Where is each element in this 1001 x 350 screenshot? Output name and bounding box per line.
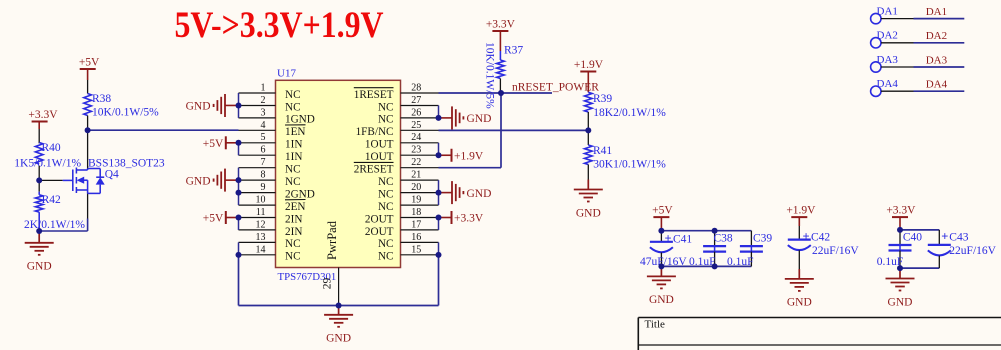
- op-amp U17 regulator body TPS767D301: [276, 80, 401, 267]
- svg-text:NC: NC: [285, 101, 301, 113]
- svg-text:6: 6: [261, 145, 266, 156]
- svg-text:C38: C38: [714, 232, 733, 244]
- connector pin DA1: [871, 5, 914, 23]
- power +3.3V (cap group): [886, 205, 916, 218]
- junction dot: junction pin 8: [236, 177, 242, 183]
- svg-text:2: 2: [261, 95, 266, 106]
- power +1.9V (C42): [786, 205, 816, 218]
- wire pin15 down: [438, 255, 440, 306]
- svg-text:NC: NC: [285, 176, 301, 188]
- svg-text:30K1/0.1W/1%: 30K1/0.1W/1%: [593, 159, 666, 171]
- wire R37 top lead: [499, 51, 501, 60]
- wire +5V lead: [660, 217, 662, 231]
- junction dot: junction C41 top: [658, 228, 664, 234]
- pin 4 (1EN): [239, 120, 306, 138]
- junction dot: junction pin 9: [236, 190, 242, 196]
- svg-text:DA2: DA2: [877, 30, 898, 42]
- junction dot: junction pad GND: [336, 303, 342, 309]
- junction dot: junction C38 bottom: [712, 263, 718, 269]
- junction dot: junction C40 top: [897, 227, 903, 233]
- junction dot: junction pin 23: [436, 152, 442, 158]
- wire Q4 source lead: [87, 193, 89, 218]
- pin 11 (2IN): [239, 207, 303, 225]
- junction dot: junction pin 20: [436, 190, 442, 196]
- pin 18 (2OUT): [365, 207, 439, 225]
- svg-text:1RESET: 1RESET: [354, 89, 394, 101]
- svg-text:NC: NC: [285, 164, 301, 176]
- wire nRESET_POWER: [439, 92, 553, 94]
- svg-text:1FB/NC: 1FB/NC: [356, 126, 394, 138]
- power +3.3V (top of R40): [28, 109, 58, 122]
- svg-text:2IN: 2IN: [285, 213, 302, 225]
- wire R38 bottom lead: [87, 116, 89, 131]
- svg-text:DA3: DA3: [877, 54, 899, 66]
- svg-text:10K/0.1W/5%: 10K/0.1W/5%: [484, 42, 496, 109]
- ground symbol left of pin 2: [214, 94, 225, 117]
- svg-text:20: 20: [411, 182, 421, 193]
- wire R38 top lead: [87, 80, 89, 94]
- svg-text:1: 1: [261, 82, 266, 93]
- connector pin DA2: [871, 30, 914, 48]
- svg-text:NC: NC: [285, 251, 301, 263]
- svg-text:GND: GND: [467, 113, 492, 125]
- svg-text:2OUT: 2OUT: [365, 213, 394, 225]
- junction dot: junction pin 18: [436, 215, 442, 221]
- wire R40 top lead: [38, 129, 40, 143]
- svg-text:8: 8: [261, 170, 266, 181]
- pin 8 (NC): [239, 170, 301, 188]
- wire to +5V: [226, 217, 239, 219]
- capacitor C42: [788, 226, 860, 269]
- junction dot: junction C40 bottom: [897, 265, 903, 271]
- wire R40-R42 bus: [38, 166, 40, 192]
- svg-text:0.1uF: 0.1uF: [689, 256, 716, 268]
- wire cap top rail 3: [900, 229, 939, 231]
- svg-text:25: 25: [411, 120, 421, 131]
- pin 3 (1GND): [239, 107, 315, 125]
- wire +3.3V lead: [38, 122, 40, 130]
- svg-text:1EN: 1EN: [285, 126, 306, 138]
- svg-text:5: 5: [261, 132, 266, 143]
- power +3.3V (pins 17-18): [452, 211, 484, 225]
- svg-text:9: 9: [261, 182, 266, 193]
- wire +1.9V lead: [798, 217, 800, 226]
- junction dot: junction pin 26: [436, 115, 442, 121]
- wire GND lead: [798, 269, 800, 279]
- capacitor C40: [877, 230, 923, 268]
- wire to GND symbol: [226, 179, 239, 181]
- wire GND lead: [38, 231, 40, 243]
- wire Q4 drain lead: [87, 130, 89, 168]
- svg-text:7: 7: [261, 157, 266, 168]
- ground (pins 26-27): [452, 106, 463, 129]
- ground (left): [25, 243, 54, 255]
- wire R39 bottom lead: [587, 112, 589, 130]
- wire R41 top lead: [587, 130, 589, 145]
- capacitor C38: [689, 231, 733, 268]
- svg-text:21: 21: [411, 170, 421, 181]
- wire to +5V: [226, 142, 239, 144]
- svg-text:1OUT: 1OUT: [365, 139, 394, 151]
- pin 27 (NC): [378, 95, 439, 113]
- resistor R40: [14, 142, 81, 169]
- title block frame: [638, 318, 1001, 350]
- svg-text:U17: U17: [277, 68, 296, 80]
- pin 22 (2RESET): [354, 157, 439, 175]
- svg-text:Q4: Q4: [105, 168, 119, 180]
- ground (cap group 1): [647, 276, 676, 288]
- svg-text:13: 13: [256, 232, 266, 243]
- svg-text:4: 4: [261, 120, 266, 131]
- power +5V (cap group): [652, 205, 673, 218]
- junction dot: junction pin 15: [436, 252, 442, 258]
- svg-text:NC: NC: [378, 114, 394, 126]
- wire +3.3V lead: [899, 217, 901, 230]
- connector pin DA4: [871, 78, 914, 96]
- wire bus pins 7-10: [238, 168, 240, 205]
- svg-text:0.1uF: 0.1uF: [727, 256, 754, 268]
- wire pin14 down: [238, 255, 240, 306]
- wire nRESET to pin 22: [439, 167, 502, 169]
- pin 28 (1RESET): [354, 82, 439, 100]
- wire GND lead: [587, 180, 589, 190]
- wire bus pins 11-12: [238, 218, 240, 230]
- svg-text:NC: NC: [378, 238, 394, 250]
- wire bottom rail left: [239, 305, 339, 307]
- svg-text:18K2/0.1W/1%: 18K2/0.1W/1%: [593, 107, 666, 119]
- wire cap top rail: [661, 230, 751, 232]
- svg-text:22uF/16V: 22uF/16V: [949, 245, 996, 257]
- svg-text:11: 11: [256, 207, 266, 218]
- wire bus pins 27-26: [438, 105, 440, 117]
- wire 1EN net to pin 4: [88, 129, 239, 131]
- pin 29 (PwrPad): [322, 268, 339, 306]
- power +5V (top of R38): [79, 57, 100, 70]
- wire to GND: [338, 306, 340, 315]
- svg-text:DA4: DA4: [926, 79, 948, 91]
- resistor R38: [84, 93, 159, 118]
- wire R42 top pin: [38, 192, 40, 195]
- transistor Q4 BSS138_SOT23: [73, 168, 105, 194]
- pin 24 (1OUT): [365, 132, 439, 150]
- svg-text:3: 3: [261, 107, 266, 118]
- svg-text:+5V: +5V: [79, 57, 100, 69]
- svg-text:NC: NC: [378, 101, 394, 113]
- wire to GND symbol: [439, 192, 452, 194]
- svg-text:R41: R41: [593, 145, 612, 157]
- svg-text:23: 23: [411, 145, 421, 156]
- wire net DA4: [914, 90, 965, 92]
- resistor R39: [585, 92, 667, 119]
- wire nRESET vertical to pin 22: [500, 93, 502, 168]
- wire to GND: [660, 266, 662, 276]
- svg-text:1GND: 1GND: [285, 114, 315, 126]
- svg-text:GND: GND: [467, 188, 492, 200]
- wire to GND symbol: [226, 104, 239, 106]
- power +1.9V (pins 23-24): [452, 149, 484, 163]
- svg-text:15: 15: [411, 244, 421, 255]
- svg-text:GND: GND: [27, 261, 52, 273]
- wire cap bottom rail 3: [900, 267, 939, 269]
- svg-text:GND: GND: [186, 101, 211, 113]
- ground (cap group 3): [886, 279, 915, 291]
- wire gate of Q4: [39, 179, 63, 181]
- wire bottom rail right: [339, 305, 439, 307]
- pin 1 (NC): [239, 82, 301, 100]
- svg-text:GND: GND: [888, 296, 913, 308]
- svg-text:GND: GND: [186, 175, 211, 187]
- svg-text:19: 19: [411, 194, 421, 205]
- wire bus pins 18-17: [438, 218, 440, 230]
- wire +3.3V lead: [499, 31, 501, 51]
- wire net DA2: [914, 42, 965, 44]
- connector pin DA3: [871, 54, 914, 72]
- pin 21 (NC): [378, 170, 439, 188]
- svg-text:10K/0.1W/5%: 10K/0.1W/5%: [92, 106, 159, 118]
- svg-text:DA1: DA1: [926, 6, 947, 18]
- svg-text:2OUT: 2OUT: [365, 226, 394, 238]
- svg-text:10: 10: [256, 194, 266, 205]
- svg-text:C41: C41: [673, 234, 692, 246]
- pin 15 (NC): [378, 244, 439, 262]
- svg-text:GND: GND: [787, 297, 812, 309]
- svg-text:2GND: 2GND: [285, 188, 315, 200]
- svg-text:+3.3V: +3.3V: [886, 205, 916, 217]
- junction dot: junction pin 11: [236, 215, 242, 221]
- svg-text:C40: C40: [903, 232, 922, 244]
- pin 17 (2OUT): [365, 219, 439, 237]
- svg-text:+5V: +5V: [652, 205, 673, 217]
- ground (below R41): [574, 190, 603, 202]
- svg-text:+1.9V: +1.9V: [574, 59, 604, 71]
- svg-text:1IN: 1IN: [285, 139, 302, 151]
- svg-text:17: 17: [411, 219, 421, 230]
- svg-text:BSS138_SOT23: BSS138_SOT23: [88, 158, 165, 170]
- svg-text:1OUT: 1OUT: [365, 151, 394, 163]
- power +5V (pins 5-6): [203, 136, 226, 150]
- wire bus pins 24-23: [438, 143, 440, 155]
- pin 19 (NC): [378, 194, 439, 212]
- svg-text:R37: R37: [504, 45, 523, 57]
- junction dot: junction R37 bottom: [498, 90, 504, 96]
- svg-text:16: 16: [411, 232, 421, 243]
- ground (below U17): [324, 315, 353, 327]
- svg-text:28: 28: [411, 82, 421, 93]
- svg-text:2EN: 2EN: [285, 201, 306, 213]
- pin 2 (NC): [239, 95, 301, 113]
- svg-text:NC: NC: [285, 89, 301, 101]
- wire +5V lead: [87, 69, 89, 80]
- svg-text:+: +: [803, 229, 810, 243]
- junction dot: junction C38 top: [712, 228, 718, 234]
- svg-text:29: 29: [322, 278, 334, 290]
- svg-text:12: 12: [256, 219, 266, 230]
- junction dot: junction node source rail: [36, 228, 42, 234]
- svg-text:1K5/0.1W/1%: 1K5/0.1W/1%: [14, 157, 81, 169]
- wire bus pins 21-19: [438, 180, 440, 205]
- svg-text:+5V: +5V: [203, 213, 224, 225]
- wire Q4 source to rail: [87, 219, 89, 232]
- ground (pins 19-21): [452, 181, 463, 204]
- pin 13 (NC): [239, 232, 301, 250]
- svg-text:1IN: 1IN: [285, 151, 302, 163]
- svg-text:DA4: DA4: [877, 78, 899, 90]
- svg-text:+1.9V: +1.9V: [786, 205, 816, 217]
- pin 16 (NC): [378, 232, 439, 250]
- junction dot: junction divider node: [585, 127, 591, 133]
- svg-text:+: +: [941, 229, 948, 243]
- wire to GND: [899, 268, 901, 278]
- pin 10 (2EN): [239, 194, 306, 212]
- wire bus pins 13-14: [238, 242, 240, 254]
- svg-text:nRESET_POWER: nRESET_POWER: [512, 82, 599, 94]
- svg-text:NC: NC: [285, 238, 301, 250]
- svg-text:C43: C43: [949, 231, 968, 243]
- wire bus pins 16-15: [438, 242, 440, 254]
- svg-text:22uF/16V: 22uF/16V: [812, 245, 859, 257]
- resistor R42: [24, 194, 85, 231]
- capacitor C41: [640, 231, 692, 268]
- svg-text:GND: GND: [649, 294, 674, 306]
- ground symbol left of pin 8: [214, 169, 225, 192]
- svg-text:C39: C39: [753, 232, 772, 244]
- svg-text:R39: R39: [593, 93, 612, 105]
- power +5V (pins 11-12): [203, 211, 226, 225]
- wire to GND symbol: [439, 117, 452, 119]
- ground (C42): [785, 279, 814, 291]
- svg-text:22: 22: [411, 157, 421, 168]
- svg-text:5V->3.3V+1.9V: 5V->3.3V+1.9V: [175, 4, 384, 45]
- svg-text:NC: NC: [378, 188, 394, 200]
- svg-text:2RESET: 2RESET: [354, 164, 394, 176]
- svg-text:+5V: +5V: [203, 138, 224, 150]
- svg-text:14: 14: [256, 244, 266, 255]
- pin 7 (NC): [239, 157, 301, 175]
- svg-text:DA2: DA2: [926, 30, 947, 42]
- svg-text:24: 24: [411, 132, 421, 143]
- wire source rail: [39, 230, 87, 232]
- wire net DA3: [914, 66, 965, 68]
- wire R41 bottom lead: [587, 165, 589, 180]
- pin 26 (NC): [378, 107, 439, 125]
- junction dot: junction pin 5: [236, 140, 242, 146]
- svg-text:NC: NC: [378, 201, 394, 213]
- svg-text:DA3: DA3: [926, 54, 948, 66]
- junction dot: junction C41 bottom: [658, 263, 664, 269]
- wire gate pin of Q4: [63, 179, 73, 181]
- capacitor C43: [928, 229, 997, 268]
- pin 20 (NC): [378, 182, 439, 200]
- wire R42 bottom pin: [38, 212, 40, 231]
- svg-text:NC: NC: [378, 251, 394, 263]
- junction dot: junction pin 14: [236, 252, 242, 258]
- pin 25 (1FB/NC): [356, 120, 439, 138]
- pin 12 (2IN): [239, 219, 303, 237]
- svg-text:+3.3V: +3.3V: [28, 109, 58, 121]
- svg-text:+3.3V: +3.3V: [454, 213, 484, 225]
- svg-text:PwrPad: PwrPad: [325, 220, 339, 260]
- wire bus pins 5-6: [238, 143, 240, 155]
- pin 23 (1OUT): [365, 145, 439, 163]
- wire cap bottom rail: [661, 265, 751, 267]
- resistor R37: [484, 42, 524, 109]
- pin 5 (1IN): [239, 132, 303, 150]
- svg-text:R38: R38: [92, 93, 111, 105]
- svg-text:+3.3V: +3.3V: [486, 19, 516, 31]
- wire bus pins 1-3: [238, 93, 240, 118]
- wire to +1.9V: [439, 154, 452, 156]
- svg-text:R40: R40: [42, 142, 61, 154]
- wire R37 bottom lead: [499, 79, 501, 94]
- svg-text:GND: GND: [326, 333, 351, 345]
- svg-text:Title: Title: [645, 319, 666, 331]
- wire 1FB to divider: [439, 129, 588, 131]
- wire +1.9V lead: [587, 72, 589, 93]
- svg-text:GND: GND: [576, 207, 601, 219]
- svg-text:DA1: DA1: [877, 5, 898, 17]
- pin 9 (2GND): [239, 182, 315, 200]
- wire net DA1: [914, 18, 965, 20]
- junction dot: junction pin 2: [236, 102, 242, 108]
- pin 6 (1IN): [239, 145, 303, 163]
- power +1.9V (top of R39): [574, 59, 604, 72]
- capacitor C39: [727, 231, 772, 268]
- svg-text:C42: C42: [811, 231, 830, 243]
- junction dot: junction node Q4 gate: [36, 177, 42, 183]
- pin 14 (NC): [239, 244, 301, 262]
- svg-text:+: +: [665, 232, 672, 246]
- svg-text:NC: NC: [378, 176, 394, 188]
- svg-text:2K/0.1W/1%: 2K/0.1W/1%: [24, 219, 85, 231]
- junction dot: junction node 1EN: [85, 127, 91, 133]
- svg-text:R42: R42: [42, 194, 61, 206]
- svg-text:26: 26: [411, 107, 421, 118]
- svg-text:+1.9V: +1.9V: [454, 150, 484, 162]
- power +3.3V (top of R37): [486, 19, 516, 32]
- svg-text:18: 18: [411, 207, 421, 218]
- wire to +3.3V: [439, 217, 452, 219]
- svg-text:2IN: 2IN: [285, 226, 302, 238]
- svg-text:27: 27: [411, 95, 421, 106]
